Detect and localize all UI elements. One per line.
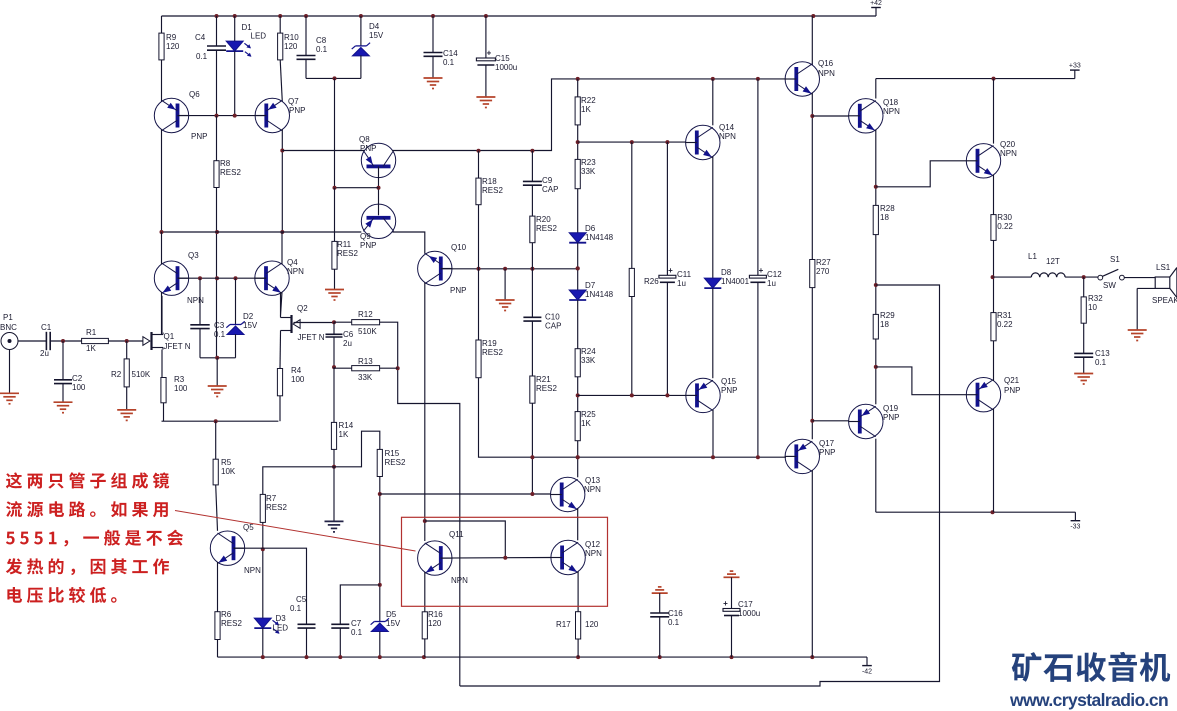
wire xyxy=(731,616,733,658)
wire xyxy=(631,142,633,268)
transistor Q11 (NPN) xyxy=(418,530,469,585)
svg-text:P1: P1 xyxy=(3,313,13,322)
svg-text:120: 120 xyxy=(585,620,599,629)
svg-text:1K: 1K xyxy=(581,105,591,114)
diode D3 xyxy=(254,614,288,634)
transistor Q13 (NPN) xyxy=(550,476,601,512)
wire R12 left xyxy=(334,321,352,323)
svg-text:1K: 1K xyxy=(581,419,591,428)
wire xyxy=(811,470,813,657)
zener diode D2 xyxy=(226,312,258,335)
resistor R17 xyxy=(556,612,599,639)
svg-text:+: + xyxy=(668,266,673,275)
resistor R25 xyxy=(575,410,596,441)
wire xyxy=(504,269,506,300)
node +33/Q20 xyxy=(992,77,996,81)
wire xyxy=(333,367,335,422)
wire xyxy=(235,334,237,358)
svg-text:Q16: Q16 xyxy=(818,59,834,68)
svg-text:0.1: 0.1 xyxy=(196,52,208,61)
wire xyxy=(666,282,668,395)
node R22 top xyxy=(576,77,580,81)
svg-text:33K: 33K xyxy=(581,356,596,365)
wire xyxy=(712,79,714,125)
resistor R22 xyxy=(575,96,596,125)
svg-text:PNP: PNP xyxy=(289,106,305,115)
svg-text:Q8: Q8 xyxy=(359,135,370,144)
svg-text:R7: R7 xyxy=(266,494,277,503)
svg-text:D4: D4 xyxy=(369,22,380,31)
net R14-R15 zigzag xyxy=(334,431,380,467)
wire xyxy=(281,292,283,316)
node Q13.B row xyxy=(530,492,534,496)
svg-text:1000u: 1000u xyxy=(495,63,517,72)
net Q3.B-Q4.B xyxy=(178,277,267,279)
node R16 xyxy=(422,655,426,659)
wire xyxy=(163,403,165,421)
svg-text:R2: R2 xyxy=(111,370,122,379)
node Q17.C xyxy=(810,655,814,659)
node Q15.B row xyxy=(576,393,580,397)
wire xyxy=(993,240,995,312)
inductor L1 xyxy=(1028,252,1065,277)
wire xyxy=(334,269,336,289)
node C5 xyxy=(305,655,309,659)
svg-text:2u: 2u xyxy=(343,339,352,348)
svg-text:R13: R13 xyxy=(358,357,373,366)
wire xyxy=(531,403,533,494)
wire xyxy=(217,640,219,658)
wire R13 to node xyxy=(380,367,398,369)
node rail/R10 xyxy=(278,14,282,18)
wire xyxy=(305,16,307,56)
transistor Q3 (NPN) xyxy=(154,251,204,305)
ground (C13) xyxy=(1074,374,1093,385)
wire xyxy=(432,56,434,78)
net R12-R13 right / fb tap xyxy=(380,322,460,686)
node R25 bottom xyxy=(576,455,580,459)
diode D7 xyxy=(569,281,613,300)
capacitor C1 xyxy=(40,323,52,358)
resistor R28 xyxy=(873,204,895,235)
ground (R11) xyxy=(325,290,344,301)
svg-text:PNP: PNP xyxy=(360,241,376,250)
wire xyxy=(659,617,661,657)
zener diode D4 xyxy=(352,22,384,56)
svg-text:R15: R15 xyxy=(385,449,400,458)
svg-text:C3: C3 xyxy=(214,321,225,330)
svg-text:C2: C2 xyxy=(72,374,83,383)
node rail/C15 xyxy=(484,14,488,18)
svg-text:C14: C14 xyxy=(443,49,458,58)
wire xyxy=(631,297,633,396)
wire xyxy=(216,16,218,46)
wire xyxy=(485,65,487,97)
svg-text:C12: C12 xyxy=(767,270,782,279)
node Q16.E/Q18.B xyxy=(810,114,814,118)
svg-text:Q14: Q14 xyxy=(719,123,735,132)
node C11 top xyxy=(665,140,669,144)
node C1/C2 xyxy=(61,339,65,343)
node R20/C10 xyxy=(530,267,534,271)
wire xyxy=(379,632,381,658)
svg-text:1K: 1K xyxy=(339,430,349,439)
net Q19.E-Q21.B jog xyxy=(876,367,967,395)
resistor R29 xyxy=(873,311,895,339)
wire xyxy=(478,205,480,269)
svg-text:L1: L1 xyxy=(1028,252,1037,261)
wire xyxy=(281,232,283,264)
capacitor C5 xyxy=(290,595,316,628)
wire xyxy=(360,16,362,46)
svg-text:Q10: Q10 xyxy=(451,243,467,252)
svg-text:0.22: 0.22 xyxy=(997,222,1013,231)
svg-text:R31: R31 xyxy=(997,311,1012,320)
svg-text:SPEAKER: SPEAKER xyxy=(1152,296,1177,305)
transistor Q10 (PNP) xyxy=(418,243,467,295)
svg-text:Q20: Q20 xyxy=(1000,140,1016,149)
resistor R27 xyxy=(810,258,832,288)
wire xyxy=(161,292,163,335)
resistor R15 xyxy=(377,449,406,477)
wire Q2 gate xyxy=(294,322,335,324)
svg-text:100: 100 xyxy=(291,375,305,384)
wire xyxy=(216,116,218,161)
svg-text:D3: D3 xyxy=(276,614,287,623)
svg-text:120: 120 xyxy=(284,42,298,51)
wire xyxy=(712,156,714,278)
wire P1 to C1 xyxy=(18,340,46,342)
wire speaker gnd stub xyxy=(1137,288,1155,330)
wire xyxy=(161,350,163,378)
wire xyxy=(424,282,426,541)
wire xyxy=(279,396,281,421)
svg-text:R6: R6 xyxy=(221,610,232,619)
wire xyxy=(333,337,335,367)
svg-text:Q11: Q11 xyxy=(449,530,464,539)
node Q15.C xyxy=(711,455,715,459)
svg-text:C8: C8 xyxy=(316,36,327,45)
svg-text:510K: 510K xyxy=(358,327,377,336)
resistor R11 xyxy=(332,240,359,269)
node R15/Q13.B wire xyxy=(378,492,382,496)
wire xyxy=(875,439,877,513)
svg-text:33K: 33K xyxy=(358,373,373,382)
svg-text:NPN: NPN xyxy=(719,132,736,141)
resistor R1 xyxy=(82,328,109,353)
node Q11.C/B tie xyxy=(423,519,427,523)
net -33 rail xyxy=(876,511,1076,513)
svg-text:R20: R20 xyxy=(536,215,551,224)
svg-text:R5: R5 xyxy=(221,458,232,467)
capacitor C2 xyxy=(54,374,86,392)
wire xyxy=(485,16,487,58)
switch S1 xyxy=(1098,255,1124,290)
capacitor C6 xyxy=(326,330,354,348)
wire xyxy=(334,78,336,187)
node R18 top xyxy=(477,149,481,153)
node Q6.E/Q3.C xyxy=(160,230,164,234)
wire xyxy=(811,93,813,260)
wire xyxy=(659,593,661,613)
svg-text:0.1: 0.1 xyxy=(351,628,363,637)
wire xyxy=(577,125,579,159)
wire xyxy=(1083,323,1085,353)
node row268 xyxy=(576,266,580,270)
wire xyxy=(280,60,282,102)
svg-text:PNP: PNP xyxy=(191,132,207,141)
capacitor C10 xyxy=(523,313,561,331)
annotation leader line xyxy=(175,511,416,552)
power -42 terminal xyxy=(862,657,872,676)
transistor Q2 (JFET) xyxy=(281,304,325,342)
svg-text:Q1: Q1 xyxy=(164,332,175,341)
wire xyxy=(235,278,237,324)
wire xyxy=(731,577,733,608)
node Q21.C/-33 xyxy=(991,510,995,514)
wire xyxy=(360,55,362,78)
net Q15.C/Q17.B row xyxy=(551,456,787,458)
node R1/R2 xyxy=(125,339,129,343)
capacitor C12 xyxy=(749,266,782,288)
svg-text:RES2: RES2 xyxy=(385,458,406,467)
svg-text:510K: 510K xyxy=(132,370,151,379)
svg-text:Q7: Q7 xyxy=(288,97,299,106)
svg-text:+: + xyxy=(723,599,728,608)
wire xyxy=(234,51,236,116)
wire xyxy=(531,185,533,216)
svg-text:RES2: RES2 xyxy=(220,168,241,177)
wire xyxy=(334,188,336,242)
wire C7 top xyxy=(340,585,380,624)
wire xyxy=(993,175,995,215)
wire xyxy=(531,151,533,182)
wire xyxy=(216,358,218,386)
svg-text:PNP: PNP xyxy=(450,286,466,295)
wire xyxy=(577,79,579,97)
svg-text:R10: R10 xyxy=(284,33,299,42)
svg-text:R4: R4 xyxy=(291,366,302,375)
wire xyxy=(199,329,201,358)
wire xyxy=(215,421,217,459)
node R5 tap xyxy=(214,419,218,423)
wire xyxy=(126,387,128,410)
ground (mid) xyxy=(496,300,515,311)
svg-text:Q3: Q3 xyxy=(188,251,199,260)
svg-text:Q4: Q4 xyxy=(287,258,298,267)
svg-text:Q21: Q21 xyxy=(1004,376,1020,385)
node R8/E-rail xyxy=(215,230,219,234)
svg-text:18: 18 xyxy=(880,320,889,329)
node C8-D4 tap xyxy=(333,76,337,80)
node Q8/Q9 base xyxy=(377,186,381,190)
svg-text:R8: R8 xyxy=(220,159,231,168)
svg-text:C5: C5 xyxy=(296,595,307,604)
svg-text:0.1: 0.1 xyxy=(290,604,302,613)
svg-text:Q19: Q19 xyxy=(883,404,899,413)
svg-text:1K: 1K xyxy=(86,344,96,353)
ground (R2) xyxy=(117,410,136,421)
svg-text:BNC: BNC xyxy=(0,323,17,332)
wire xyxy=(577,441,579,478)
capacitor C4 xyxy=(195,33,226,61)
net Q14 base row xyxy=(578,141,686,143)
node C9 top xyxy=(530,149,534,153)
transistor Q12 (NPN) xyxy=(551,540,603,575)
resistor R21 xyxy=(530,375,558,403)
capacitor C3 xyxy=(190,321,225,339)
svg-text:PNP: PNP xyxy=(360,144,376,153)
svg-text:NPN: NPN xyxy=(584,485,601,494)
svg-text:12T: 12T xyxy=(1046,257,1060,266)
svg-text:C13: C13 xyxy=(1095,349,1110,358)
diode D1 xyxy=(226,23,266,57)
node C11 bottom xyxy=(665,393,669,397)
node R17 xyxy=(576,655,580,659)
node tie xyxy=(503,556,507,560)
wire xyxy=(333,322,335,334)
resistor R2 xyxy=(111,359,151,387)
node rail/D4 xyxy=(359,14,363,18)
svg-text:0.1: 0.1 xyxy=(1095,358,1107,367)
svg-text:JFET N: JFET N xyxy=(164,342,191,351)
wire xyxy=(279,333,282,369)
capacitor C17 xyxy=(723,599,760,618)
resistor R12 xyxy=(352,310,380,336)
node D2 xyxy=(234,276,238,280)
ground (C16, inverted) xyxy=(652,587,668,593)
node C6/R13/R14 xyxy=(332,365,336,369)
wire xyxy=(875,235,877,315)
net Q18.E-Q20.B jog xyxy=(876,161,967,187)
transistor Q20 (NPN) xyxy=(966,140,1017,178)
wire output to L1 xyxy=(993,276,1032,278)
svg-text:LS1: LS1 xyxy=(1156,263,1171,272)
node R26 top xyxy=(630,140,634,144)
wire xyxy=(432,16,434,53)
diode D8 xyxy=(704,268,749,288)
svg-text:R26: R26 xyxy=(644,277,659,286)
transistor Q17 (PNP) xyxy=(785,439,836,474)
svg-text:CAP: CAP xyxy=(545,322,561,331)
wire base tie xyxy=(335,187,379,189)
svg-text:120: 120 xyxy=(428,619,442,628)
net Q16.E-Q18.B xyxy=(812,115,848,117)
resistor R30 xyxy=(991,213,1014,240)
wire xyxy=(577,571,579,611)
svg-text:Q9: Q9 xyxy=(360,232,371,241)
wire xyxy=(993,409,995,513)
node R26 bottom xyxy=(630,393,634,397)
wire R13 left xyxy=(334,367,352,369)
svg-text:+42: +42 xyxy=(870,0,882,7)
wire xyxy=(216,188,218,358)
wire xyxy=(199,278,201,325)
resistor R31 xyxy=(991,311,1013,341)
wire xyxy=(339,628,341,657)
wire xyxy=(161,296,163,333)
svg-text:C17: C17 xyxy=(738,600,753,609)
resistor R7 xyxy=(260,494,287,522)
connector P1 (BNC) xyxy=(0,313,18,350)
node R29/Q19.E/Q21.B xyxy=(874,365,878,369)
svg-text:NPN: NPN xyxy=(1000,149,1017,158)
wire xyxy=(577,377,579,412)
resistor R18 xyxy=(476,177,504,205)
ground (speaker) xyxy=(1128,330,1147,341)
svg-text:R22: R22 xyxy=(581,96,596,105)
net Q13 base wire xyxy=(380,493,551,495)
wire S1 to speaker xyxy=(1124,277,1155,279)
resistor R32 xyxy=(1081,294,1103,323)
wire xyxy=(217,562,219,612)
capacitor C13 xyxy=(1074,349,1110,367)
transistor Q15 (PNP) xyxy=(686,377,738,413)
wire xyxy=(161,232,163,264)
node rail/Q16 xyxy=(811,14,815,18)
node R27/Q19.B xyxy=(810,419,814,423)
transistor Q9 (PNP) xyxy=(360,204,396,250)
svg-text:Q12: Q12 xyxy=(585,540,601,549)
wire xyxy=(577,476,579,478)
svg-text:NPN: NPN xyxy=(187,296,204,305)
svg-text:D2: D2 xyxy=(243,312,254,321)
svg-text:RES2: RES2 xyxy=(482,348,503,357)
net C8/D4 bottom xyxy=(306,77,361,79)
power -33 terminal xyxy=(1070,512,1080,531)
net Q6.E/Q7.C rail xyxy=(162,231,362,233)
svg-text:R21: R21 xyxy=(536,375,551,384)
annotation red box (Q11/Q12 mirror) xyxy=(402,517,608,606)
transistor Q14 (NPN) xyxy=(685,123,736,160)
wire Q9.C to Q10.E xyxy=(392,232,425,254)
svg-text:R29: R29 xyxy=(880,311,895,320)
svg-text:PNP: PNP xyxy=(819,448,835,457)
node C7 tap xyxy=(378,583,382,587)
svg-text:Q15: Q15 xyxy=(721,377,737,386)
diode D6 xyxy=(569,224,613,243)
svg-text:LED: LED xyxy=(273,624,289,633)
node R18/R19 xyxy=(477,267,481,271)
svg-text:R23: R23 xyxy=(581,158,596,167)
node Q7-Q4 xyxy=(280,230,284,234)
wire xyxy=(577,508,579,540)
net -42 bottom rail xyxy=(218,656,868,658)
wire xyxy=(712,288,714,378)
svg-text:R17: R17 xyxy=(556,620,571,629)
wire xyxy=(333,467,335,522)
svg-text:RES2: RES2 xyxy=(221,619,242,628)
transistor Q8 (PNP) xyxy=(359,135,396,178)
svg-text:18: 18 xyxy=(880,213,889,222)
svg-text:C11: C11 xyxy=(677,270,692,279)
svg-text:JFET N: JFET N xyxy=(298,333,325,342)
wire Q8.E xyxy=(282,150,364,152)
wire R1 to Q1 gate xyxy=(108,340,149,342)
ground (C3/D2) xyxy=(208,386,227,397)
capacitor C9 xyxy=(523,176,559,194)
transistor Q18 (NPN) xyxy=(848,98,900,133)
wire xyxy=(993,79,995,144)
svg-text:Q6: Q6 xyxy=(189,90,200,99)
node D1 xyxy=(233,114,237,118)
wire R7 top xyxy=(263,467,334,495)
svg-text:R19: R19 xyxy=(482,339,497,348)
node C7 xyxy=(338,655,342,659)
node R25/row457 xyxy=(576,455,580,459)
svg-text:R3: R3 xyxy=(174,375,185,384)
svg-text:SW: SW xyxy=(1103,281,1116,290)
